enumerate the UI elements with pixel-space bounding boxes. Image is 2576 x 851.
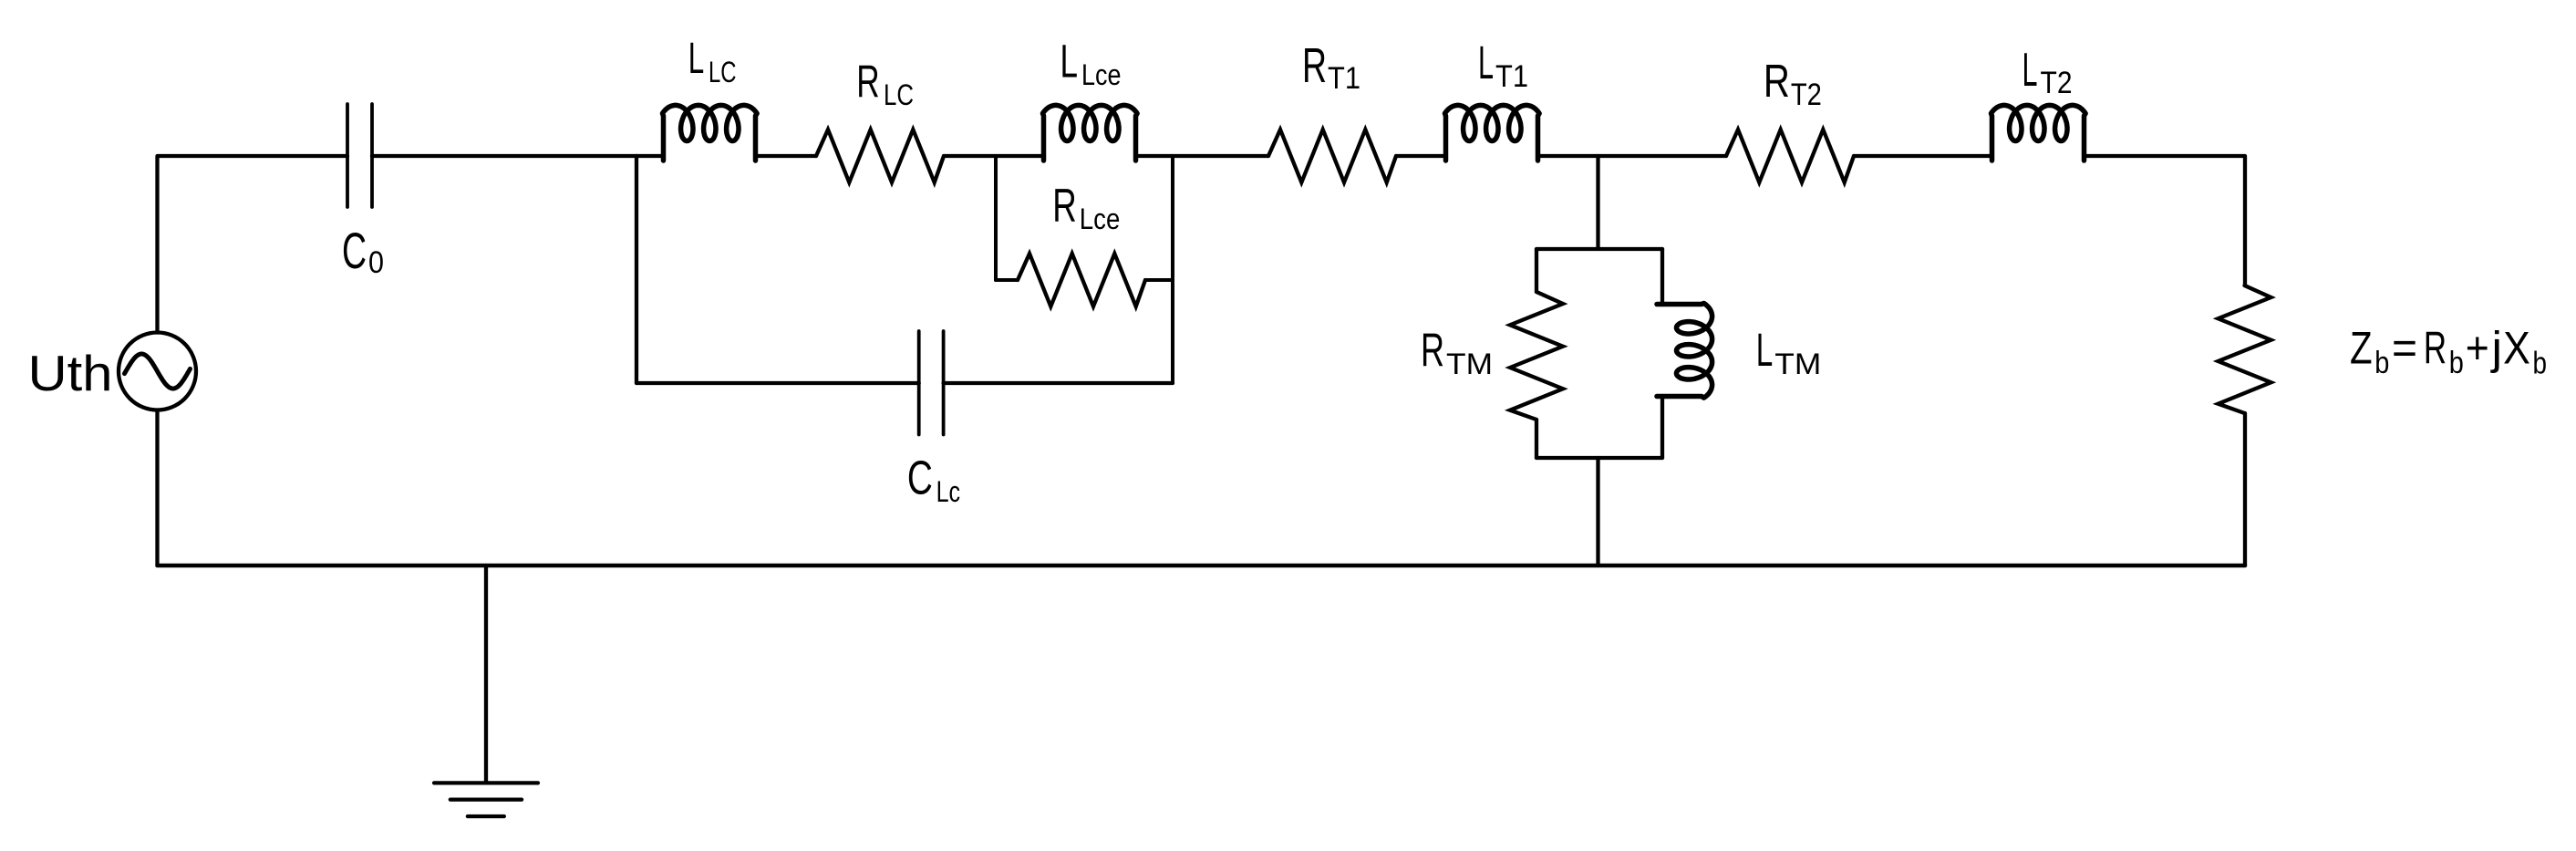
inductor L_TM (1657, 304, 1712, 399)
svg-text:X: X (2503, 323, 2530, 374)
inductor L_T1 (1445, 105, 1540, 161)
voltage source Uth circle (119, 333, 196, 410)
svg-text:T1: T1 (1495, 59, 1528, 94)
label RTM (1421, 323, 1493, 380)
ground bar 3 (468, 815, 504, 818)
wire: tank right lead (1660, 249, 1664, 305)
wire L_T2 to right corner (2085, 156, 2246, 285)
node B vertical wire down to RTM/LTM tank (1596, 156, 1599, 249)
label RLce (1052, 179, 1120, 235)
label RT2 (1764, 55, 1822, 112)
svg-text:TM: TM (1446, 348, 1493, 380)
wire top-left (source top to C0) (158, 156, 348, 333)
svg-text:R: R (1764, 55, 1790, 107)
svg-text:L: L (1060, 35, 1079, 87)
svg-text:b: b (2449, 346, 2464, 380)
voltage source sine wave (125, 354, 191, 389)
wire: tank bottom bar (1536, 456, 1662, 460)
wire node A to L_LC (636, 154, 664, 158)
ground bar 2 (450, 797, 522, 801)
svg-text:Lc: Lc (936, 475, 961, 508)
svg-text:Uth: Uth (28, 345, 113, 401)
resistor R_Lce (1018, 254, 1145, 306)
svg-text:L: L (1478, 36, 1494, 88)
wire C0 to node A (372, 154, 636, 158)
capacitor C0 (347, 104, 372, 207)
wire R_T1 to L_T1 (1396, 154, 1446, 158)
svg-text:L: L (688, 35, 705, 83)
bottom rail wire (158, 564, 2246, 568)
svg-text:R: R (1302, 39, 1327, 93)
inductor L_Lce (1043, 105, 1138, 161)
wire: tank top bar (1536, 247, 1662, 251)
label LT1 (1478, 36, 1528, 94)
wire L_Lce to R_T1 (1136, 154, 1269, 158)
svg-text:0: 0 (368, 245, 384, 280)
resistor R_T2 (1726, 130, 1854, 182)
svg-text:Z: Z (2350, 323, 2373, 374)
wire R_T2 to L_T2 (1854, 154, 1992, 158)
wire C_Lc to right vertical (944, 381, 1173, 385)
svg-text:C: C (907, 451, 933, 504)
svg-text:L: L (2023, 44, 2038, 97)
wire L_T1 to R_T2 (through node B) (1538, 154, 1727, 158)
ground bar 1 (434, 781, 538, 784)
resistor R_TM (1510, 292, 1563, 420)
svg-text:R: R (2424, 323, 2447, 374)
wire: tank to bottom rail (1596, 458, 1599, 566)
svg-text:LC: LC (884, 78, 914, 111)
wire R_Lce to right vertical (1145, 278, 1173, 282)
label LLC (688, 35, 737, 88)
svg-text:+: + (2466, 323, 2489, 374)
resistor Zb (load) (2219, 285, 2271, 413)
label RT1 (1302, 39, 1360, 96)
label RLC (856, 57, 914, 111)
svg-text:LC: LC (709, 56, 737, 88)
wire stub to R_Lce (996, 278, 1018, 282)
wire L_LC to R_LC (756, 154, 817, 158)
svg-text:T2: T2 (2041, 66, 2073, 100)
wire: right vertical of parallel block down to C_Lc branch (1171, 156, 1174, 383)
label Zb = Rb + jXb (2350, 323, 2547, 381)
svg-text:j: j (2489, 323, 2502, 374)
label LLce (1060, 35, 1122, 91)
svg-text:b: b (2533, 347, 2548, 381)
svg-text:TM: TM (1774, 348, 1821, 380)
svg-text:Lce: Lce (1081, 58, 1122, 91)
label CLc (907, 451, 960, 508)
ground stem wire (484, 566, 488, 782)
svg-text:T2: T2 (1791, 78, 1822, 112)
resistor R_LC (816, 130, 944, 182)
wire branch: node A to C_Lc (636, 381, 919, 385)
inductor L_LC (663, 105, 758, 161)
wire source bottom to rail (155, 410, 159, 566)
svg-text:=: = (2392, 323, 2417, 374)
node A vertical branch wire (635, 156, 638, 383)
resistor R_T1 (1268, 130, 1396, 182)
capacitor C_Lc (919, 331, 944, 435)
wire R_LC to L_Lce (944, 154, 1044, 158)
svg-text:R: R (1421, 323, 1444, 376)
label LT2 (2023, 44, 2073, 100)
label C0 (342, 222, 384, 280)
svg-text:R: R (856, 57, 879, 108)
wire Zb to bottom rail (2243, 413, 2247, 566)
label LTM (1756, 324, 1822, 380)
svg-text:L: L (1756, 324, 1774, 376)
wire: tank left lead (1535, 249, 1538, 292)
svg-text:Lce: Lce (1080, 202, 1121, 235)
svg-text:C: C (342, 222, 367, 279)
wire: tank right lower lead (1660, 396, 1664, 458)
svg-text:R: R (1052, 179, 1077, 232)
wire: left vertical of L_Lce/R_Lce parallel block (994, 156, 998, 280)
svg-text:b: b (2374, 346, 2389, 380)
wire: tank left lower lead (1535, 420, 1538, 458)
svg-text:T1: T1 (1328, 61, 1360, 96)
inductor L_T2 (1991, 105, 2086, 161)
